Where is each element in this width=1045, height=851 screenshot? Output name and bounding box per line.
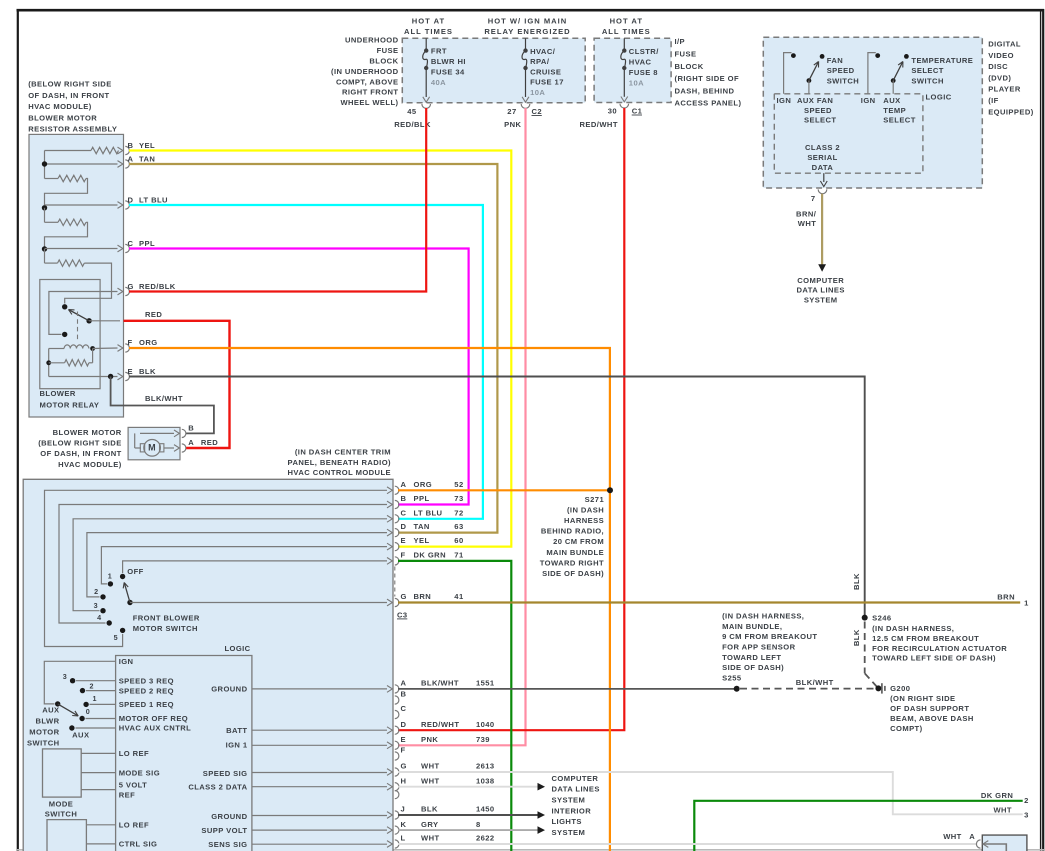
label WHT A [943, 832, 975, 841]
svg-text:(BELOW RIGHT SIDE: (BELOW RIGHT SIDE [38, 439, 122, 448]
wire: hvac pin C to switch position 3 [73, 519, 387, 611]
svg-text:BATT: BATT [226, 726, 247, 735]
relay switch lower contact and wire to pin G [49, 292, 118, 338]
svg-text:S246: S246 [872, 614, 891, 623]
svg-text:FRT: FRT [431, 46, 447, 55]
svg-text:E: E [128, 367, 134, 376]
resistor R2 [45, 175, 88, 208]
svg-text:C: C [401, 508, 407, 517]
pin G RED/BLK of resistor assembly [118, 282, 176, 296]
svg-text:RED/WHT: RED/WHT [421, 720, 459, 729]
svg-text:CTRL SIG: CTRL SIG [119, 840, 158, 849]
svg-text:YEL: YEL [139, 141, 155, 150]
svg-text:A: A [188, 438, 194, 447]
svg-text:VIDEO: VIDEO [988, 51, 1014, 60]
label: hot at all times (fuse 34) [404, 17, 453, 36]
svg-text:OF DASH, IN FRONT: OF DASH, IN FRONT [28, 91, 109, 100]
svg-text:MOTOR: MOTOR [29, 728, 59, 737]
svg-text:B: B [401, 494, 407, 503]
fuse 8 CLSTR/HVAC 10A [621, 38, 659, 97]
svg-text:HVAC CONTROL MODULE: HVAC CONTROL MODULE [288, 468, 391, 477]
label: fan speed switch [827, 56, 859, 85]
svg-text:D: D [401, 522, 407, 531]
svg-text:FRONT BLOWER: FRONT BLOWER [133, 613, 200, 622]
resistor R3 [45, 219, 88, 249]
svg-text:HVAC AUX CNTRL: HVAC AUX CNTRL [119, 724, 192, 733]
svg-text:PPL: PPL [139, 239, 155, 248]
wires second switch to logic [86, 825, 115, 844]
relay resistor [46, 349, 92, 377]
svg-text:(IN DASH CENTER TRIM: (IN DASH CENTER TRIM [295, 448, 391, 457]
relay coil link (dashed) [77, 312, 79, 343]
wire: common net vertical (pin A) [42, 151, 118, 179]
wires mode switch to logic [81, 753, 115, 789]
wire: relay to pin E [49, 374, 118, 379]
hvac lower pin L WHT 2622 [387, 834, 495, 848]
svg-text:BLK: BLK [852, 629, 861, 646]
hvac lower pin J BLK 1450 [387, 805, 495, 819]
svg-text:WHT: WHT [798, 219, 817, 228]
svg-text:4: 4 [97, 613, 101, 622]
svg-text:(IN UNDERHOOD: (IN UNDERHOOD [331, 67, 399, 76]
hvac lower pin K GRY 8 [387, 820, 481, 834]
svg-text:12.5 CM FROM BREAKOUT: 12.5 CM FROM BREAKOUT [872, 634, 979, 643]
svg-text:DATA LINES: DATA LINES [552, 785, 600, 794]
svg-text:GROUND: GROUND [211, 812, 247, 821]
svg-text:WHT: WHT [421, 776, 440, 785]
svg-text:(IN DASH: (IN DASH [567, 505, 604, 514]
svg-text:BLK/WHT: BLK/WHT [145, 394, 183, 403]
wire IGN 1 to pin E [252, 744, 387, 746]
svg-text:BRN: BRN [997, 593, 1015, 602]
svg-text:RED/BLK: RED/BLK [139, 282, 176, 291]
labels inside logic box right [188, 685, 248, 850]
wire BRN/WHT to computer data lines [796, 194, 826, 272]
svg-text:C: C [401, 704, 407, 713]
svg-text:BLK: BLK [139, 367, 156, 376]
wire PPL from resistor pin C to hvac pin B [129, 249, 469, 505]
svg-text:27: 27 [507, 107, 516, 116]
svg-text:E: E [401, 536, 407, 545]
svg-text:CLASS 2 DATA: CLASS 2 DATA [188, 783, 247, 792]
svg-text:(DVD): (DVD) [988, 73, 1011, 82]
svg-text:BLOCK: BLOCK [675, 62, 704, 71]
svg-text:DK GRN: DK GRN [414, 551, 446, 560]
pin C PPL of resistor assembly [118, 239, 156, 253]
svg-text:FOR RECIRCULATION ACTUATOR: FOR RECIRCULATION ACTUATOR [872, 644, 1007, 653]
svg-text:TOWARD LEFT SIDE OF DASH): TOWARD LEFT SIDE OF DASH) [872, 654, 996, 663]
wire: switch common to hvac pin G [130, 602, 387, 604]
svg-text:AUX FAN: AUX FAN [797, 96, 833, 105]
fuse 34 FRT BLWR HI 40A [423, 38, 466, 97]
svg-text:BEAM, ABOVE DASH: BEAM, ABOVE DASH [890, 714, 974, 723]
svg-text:BEHIND RADIO,: BEHIND RADIO, [541, 527, 604, 536]
svg-text:G200: G200 [890, 684, 910, 693]
svg-text:PNK: PNK [421, 735, 438, 744]
node: pin C tap [42, 246, 118, 263]
wire F DK GRN down page [398, 561, 511, 851]
label: computer data lines system [552, 774, 600, 804]
wire: hvac pin D to switch position 2 [87, 533, 387, 597]
pin D LT BLU of resistor assembly [118, 196, 169, 210]
wire RED/BLK from fuse 34 to resistor pin G [129, 108, 426, 292]
svg-text:OF DASH, IN FRONT: OF DASH, IN FRONT [40, 449, 121, 458]
pin A TAN of resistor assembly [118, 155, 156, 169]
svg-text:WHT: WHT [993, 806, 1012, 815]
svg-text:AUX: AUX [72, 731, 89, 740]
svg-text:TOWARD RIGHT: TOWARD RIGHT [540, 558, 604, 567]
svg-text:BLK: BLK [852, 573, 861, 590]
svg-text:PLAYER: PLAYER [988, 85, 1021, 94]
relay coil [49, 345, 118, 351]
svg-text:HVAC MODULE): HVAC MODULE) [58, 460, 122, 469]
mode switch box [43, 749, 82, 797]
svg-text:(RIGHT SIDE OF: (RIGHT SIDE OF [675, 74, 740, 83]
svg-text:BRN/: BRN/ [796, 209, 817, 218]
relay switch arm [69, 310, 121, 324]
wire K GRY 8 to interior lights [398, 826, 545, 834]
wire RED from relay to blower motor pin A [124, 321, 230, 448]
svg-text:HOT W/ IGN MAIN: HOT W/ IGN MAIN [488, 17, 568, 26]
svg-text:2: 2 [1024, 796, 1029, 805]
svg-text:HOT AT: HOT AT [412, 17, 445, 26]
svg-text:DIGITAL: DIGITAL [988, 40, 1021, 49]
svg-text:1450: 1450 [476, 805, 495, 814]
hvac pin B PPL 73 [387, 494, 464, 509]
i/p fuse block box (dashed) [594, 38, 671, 102]
svg-text:SIDE OF DASH): SIDE OF DASH) [722, 663, 784, 672]
svg-text:BLOWER MOTOR: BLOWER MOTOR [53, 428, 122, 437]
svg-text:10A: 10A [530, 88, 545, 97]
svg-text:WHT: WHT [421, 834, 440, 843]
svg-text:BLK/WHT: BLK/WHT [421, 679, 459, 688]
wire BLK/WHT from hvac pin A to S255 [398, 686, 740, 692]
wire DK GRN from bottom to right edge (circuit 2) [694, 791, 1029, 851]
svg-text:SWITCH: SWITCH [827, 76, 859, 85]
wire BATT to pin D [252, 729, 387, 731]
blower motor M symbol [135, 433, 174, 456]
wire SPEED SIG to pin G [252, 772, 387, 774]
connector C3 dashed body [394, 567, 396, 597]
blower motor relay box [40, 280, 100, 389]
svg-text:LOGIC: LOGIC [224, 644, 250, 653]
wire G BRN to right edge (circuit 1) [398, 593, 1029, 608]
svg-text:G: G [401, 592, 407, 601]
wire YEL from resistor pin B to hvac pin E [129, 151, 511, 547]
svg-text:A: A [401, 480, 407, 489]
svg-text:LO REF: LO REF [119, 749, 149, 758]
hvac lower pin G WHT 2613 [387, 762, 495, 776]
svg-text:ALL TIMES: ALL TIMES [602, 27, 651, 36]
svg-text:52: 52 [454, 480, 463, 489]
wire PNK from fuse 17 to hvac pin E (739) [398, 108, 526, 745]
wire IGN to aux switch common [44, 661, 115, 704]
hvac logic box [116, 656, 252, 851]
svg-text:41: 41 [454, 592, 464, 601]
svg-text:TOWARD LEFT: TOWARD LEFT [722, 653, 781, 662]
wire BLK dashed from S246 to G200 [865, 622, 878, 688]
svg-text:C3: C3 [397, 610, 408, 619]
svg-text:OFF: OFF [127, 567, 143, 576]
svg-text:OF DASH SUPPORT: OF DASH SUPPORT [890, 704, 969, 713]
svg-text:SELECT: SELECT [883, 116, 915, 125]
svg-text:(IN DASH HARNESS,: (IN DASH HARNESS, [722, 612, 804, 621]
label: S246 location [872, 624, 1007, 663]
wire CLASS 2 DATA to pin H [252, 786, 387, 788]
label: temperature select switch [911, 56, 973, 85]
svg-text:I/P: I/P [675, 37, 686, 46]
label: hot w/ ign main relay energized (fuse 17) [484, 17, 570, 36]
svg-text:FOR APP SENSOR: FOR APP SENSOR [722, 643, 795, 652]
hvac lower pin F [395, 746, 406, 760]
pin E BLK of resistor assembly [118, 367, 156, 381]
svg-text:PPL: PPL [414, 494, 430, 503]
svg-text:SIDE OF DASH): SIDE OF DASH) [542, 569, 604, 578]
svg-text:SPEED: SPEED [827, 66, 855, 75]
dvd player box (dashed) [763, 37, 982, 188]
label: computer data lines system (dvd) [797, 276, 845, 304]
aux blower motor switch [55, 672, 97, 716]
label: G200 location [890, 694, 974, 733]
hvac pin E YEL 60 [387, 536, 464, 551]
svg-text:MOTOR OFF REQ: MOTOR OFF REQ [119, 714, 188, 723]
svg-text:IGN 1: IGN 1 [226, 741, 248, 750]
svg-text:SYSTEM: SYSTEM [552, 795, 586, 804]
svg-text:MAIN BUNDLE,: MAIN BUNDLE, [722, 622, 782, 631]
label S271 splice [540, 495, 605, 578]
label: aux blwr motor switch [27, 706, 60, 748]
wire: hvac pin E to switch position 1 [101, 547, 387, 584]
svg-text:ORG: ORG [139, 338, 158, 347]
svg-text:D: D [128, 196, 134, 205]
svg-text:S271: S271 [585, 495, 605, 504]
svg-text:E: E [401, 735, 407, 744]
svg-text:F: F [401, 551, 406, 560]
label: S255 location [722, 612, 817, 683]
fan speed switch [784, 53, 825, 94]
svg-text:FAN: FAN [827, 56, 843, 65]
svg-text:SELECT: SELECT [911, 66, 943, 75]
dvd logic box (dashed) [774, 94, 923, 173]
svg-text:MOTOR RELAY: MOTOR RELAY [40, 401, 100, 410]
hvac lower pin C [395, 704, 407, 718]
svg-text:D: D [401, 720, 407, 729]
svg-text:LT BLU: LT BLU [139, 196, 168, 205]
svg-text:ACCESS PANEL): ACCESS PANEL) [675, 99, 742, 108]
svg-text:A: A [128, 155, 134, 164]
label: i/p fuse block [675, 37, 742, 108]
pin A of bottom right module [976, 840, 1006, 851]
svg-text:30: 30 [608, 107, 617, 116]
svg-text:J: J [401, 805, 406, 814]
svg-text:TEMP: TEMP [883, 106, 906, 115]
svg-text:A: A [969, 832, 975, 841]
class 2 serial data output to pin 7 [811, 173, 827, 203]
svg-text:EQUIPPED): EQUIPPED) [988, 107, 1034, 116]
svg-text:RELAY ENERGIZED: RELAY ENERGIZED [484, 27, 570, 36]
svg-text:A: A [401, 679, 407, 688]
hvac pin D TAN 63 [387, 522, 464, 537]
svg-text:B: B [188, 424, 194, 433]
svg-text:2613: 2613 [476, 762, 495, 771]
svg-text:DATA: DATA [812, 163, 834, 172]
wire L WHT 2622 to bottom right module [398, 843, 977, 845]
svg-text:B: B [128, 141, 134, 150]
svg-text:HVAC: HVAC [629, 57, 652, 66]
svg-text:COMPUTER: COMPUTER [552, 774, 599, 783]
svg-text:3: 3 [94, 601, 98, 610]
svg-text:SPEED 3 REQ: SPEED 3 REQ [119, 676, 174, 685]
svg-text:TEMPERATURE: TEMPERATURE [911, 56, 973, 65]
hvac pin G BRN 41 [387, 592, 464, 607]
label: blower motor relay [40, 389, 100, 410]
svg-text:SWITCH: SWITCH [911, 76, 943, 85]
svg-text:INTERIOR: INTERIOR [552, 806, 592, 815]
hvac lower pin unlabeled [395, 791, 399, 799]
svg-text:MAIN BUNDLE: MAIN BUNDLE [546, 548, 604, 557]
svg-text:WHT: WHT [943, 832, 962, 841]
resistor R1 (to pin B) [45, 147, 119, 153]
svg-text:GRY: GRY [421, 820, 438, 829]
hvac lower pin A BLK/WHT 1551 [387, 679, 495, 693]
svg-text:60: 60 [454, 536, 463, 545]
second switch box (cut off) [47, 820, 86, 851]
temperature select switch [868, 53, 909, 94]
svg-text:ALL TIMES: ALL TIMES [404, 27, 453, 36]
wire BLK/WHT dashed from S255 to G200 [740, 678, 875, 689]
wire D RED/WHT from hvac pin D (drawn above) [0, 0, 1, 1]
svg-text:LO REF: LO REF [119, 821, 149, 830]
svg-text:63: 63 [454, 522, 463, 531]
svg-text:S255: S255 [722, 674, 742, 683]
svg-text:40A: 40A [431, 78, 446, 87]
label: front blower motor switch [133, 613, 200, 633]
svg-text:(IF: (IF [988, 96, 999, 105]
svg-text:LT BLU: LT BLU [414, 508, 443, 517]
svg-text:1551: 1551 [476, 679, 495, 688]
wire GROUND to pin J [252, 815, 387, 817]
svg-text:COMPUTER: COMPUTER [797, 276, 844, 285]
svg-text:RED: RED [145, 310, 162, 319]
hvac lower pin D RED/WHT 1040 [387, 720, 495, 734]
label: hvac control module location [288, 448, 392, 478]
hvac pin A ORG 52 [387, 480, 464, 495]
fuse 34 output tap pin 45 [407, 97, 430, 116]
wire TAN from resistor pin A to hvac pin D [129, 164, 497, 533]
svg-text:CLSTR/: CLSTR/ [629, 47, 659, 56]
svg-text:SELECT: SELECT [804, 116, 836, 125]
svg-text:FUSE 17: FUSE 17 [530, 78, 564, 87]
svg-text:0: 0 [86, 707, 90, 716]
svg-text:FUSE: FUSE [377, 46, 399, 55]
svg-text:L: L [401, 834, 406, 843]
svg-text:CLASS 2: CLASS 2 [805, 143, 840, 152]
svg-text:739: 739 [476, 735, 490, 744]
svg-text:K: K [401, 820, 407, 829]
svg-text:1: 1 [93, 694, 97, 703]
svg-text:HARNESS: HARNESS [564, 516, 604, 525]
svg-text:PANEL, BENEATH RADIO): PANEL, BENEATH RADIO) [288, 458, 392, 467]
bottom right module box (cut off) [982, 835, 1027, 851]
svg-text:RPA/: RPA/ [530, 57, 550, 66]
pin B of blower motor [174, 424, 194, 438]
svg-text:PNK: PNK [504, 120, 521, 129]
svg-text:SPEED 1 REQ: SPEED 1 REQ [119, 700, 174, 709]
wire: hvac pin A to switch position 5 [45, 490, 388, 646]
svg-text:HVAC MODULE): HVAC MODULE) [28, 102, 92, 111]
svg-text:RED: RED [201, 438, 218, 447]
fuse 8 output tap pin 30 connector C1 [608, 97, 643, 116]
svg-text:SPEED 2 REQ: SPEED 2 REQ [119, 686, 174, 695]
svg-text:9 CM FROM BREAKOUT: 9 CM FROM BREAKOUT [722, 632, 817, 641]
label: blower motor resistor assembly location [28, 80, 117, 134]
wire BLK/WHT from relay to blower motor pin B [111, 377, 214, 434]
svg-text:SERIAL: SERIAL [807, 153, 837, 162]
hvac control module box [23, 479, 393, 851]
svg-text:2: 2 [90, 682, 94, 691]
underhood fuse block box (dashed) [402, 38, 585, 103]
svg-text:DK GRN: DK GRN [981, 791, 1013, 800]
svg-text:3: 3 [63, 672, 67, 681]
svg-text:RESISTOR ASSEMBLY: RESISTOR ASSEMBLY [28, 125, 117, 134]
hvac pin C LT BLU 72 [387, 508, 464, 523]
label: blower motor location [38, 428, 122, 469]
svg-text:F: F [401, 746, 406, 755]
svg-text:10A: 10A [629, 78, 644, 87]
svg-text:TAN: TAN [414, 522, 430, 531]
svg-text:HVAC/: HVAC/ [530, 47, 556, 56]
wire ORG from resistor pin F through S271 junction [129, 348, 610, 851]
svg-text:5 VOLT: 5 VOLT [119, 780, 148, 789]
svg-text:BLK: BLK [421, 805, 438, 814]
svg-text:SWITCH: SWITCH [27, 739, 59, 748]
svg-text:SWITCH: SWITCH [45, 810, 77, 819]
svg-text:SPEED: SPEED [804, 106, 832, 115]
svg-text:BLK/WHT: BLK/WHT [796, 678, 834, 687]
svg-text:5: 5 [114, 633, 118, 642]
svg-text:BLOCK: BLOCK [369, 57, 398, 66]
wire: hvac pin B to switch position 4 [59, 505, 387, 624]
label: interior lights system [552, 806, 592, 836]
fuse 17 output tap pin 27 connector C2 [507, 97, 542, 116]
wire BLK from resistor pin E to S246 [129, 377, 865, 617]
svg-text:UNDERHOOD: UNDERHOOD [345, 36, 399, 45]
blower motor box [128, 427, 180, 459]
wire LT BLU from resistor pin D to hvac pin C [129, 205, 483, 519]
svg-text:DASH, BEHIND: DASH, BEHIND [675, 86, 735, 95]
svg-text:1040: 1040 [476, 720, 495, 729]
label: underhood fuse block [331, 36, 399, 107]
svg-text:SYSTEM: SYSTEM [552, 828, 586, 837]
svg-text:7: 7 [811, 194, 816, 203]
svg-text:REF: REF [119, 790, 135, 799]
svg-text:C1: C1 [632, 106, 643, 115]
svg-text:(BELOW RIGHT SIDE: (BELOW RIGHT SIDE [28, 80, 112, 89]
wire SPEED 3 REQ to aux contact 3 [70, 678, 116, 683]
svg-text:SUPP VOLT: SUPP VOLT [201, 826, 247, 835]
wire GROUND to pin A [252, 688, 387, 690]
label: hot at all times (fuse 8) [602, 17, 651, 36]
svg-text:2622: 2622 [476, 834, 495, 843]
wire RED/WHT from fuse 8 to hvac pin D (1040) [398, 108, 624, 730]
svg-text:MODE SIG: MODE SIG [119, 768, 160, 777]
svg-text:SENS SIG: SENS SIG [208, 840, 247, 849]
svg-text:YEL: YEL [414, 536, 430, 545]
svg-text:FUSE: FUSE [675, 50, 697, 59]
svg-text:C2: C2 [532, 107, 543, 116]
front blower motor switch [94, 567, 144, 642]
svg-text:FUSE 8: FUSE 8 [629, 68, 658, 77]
